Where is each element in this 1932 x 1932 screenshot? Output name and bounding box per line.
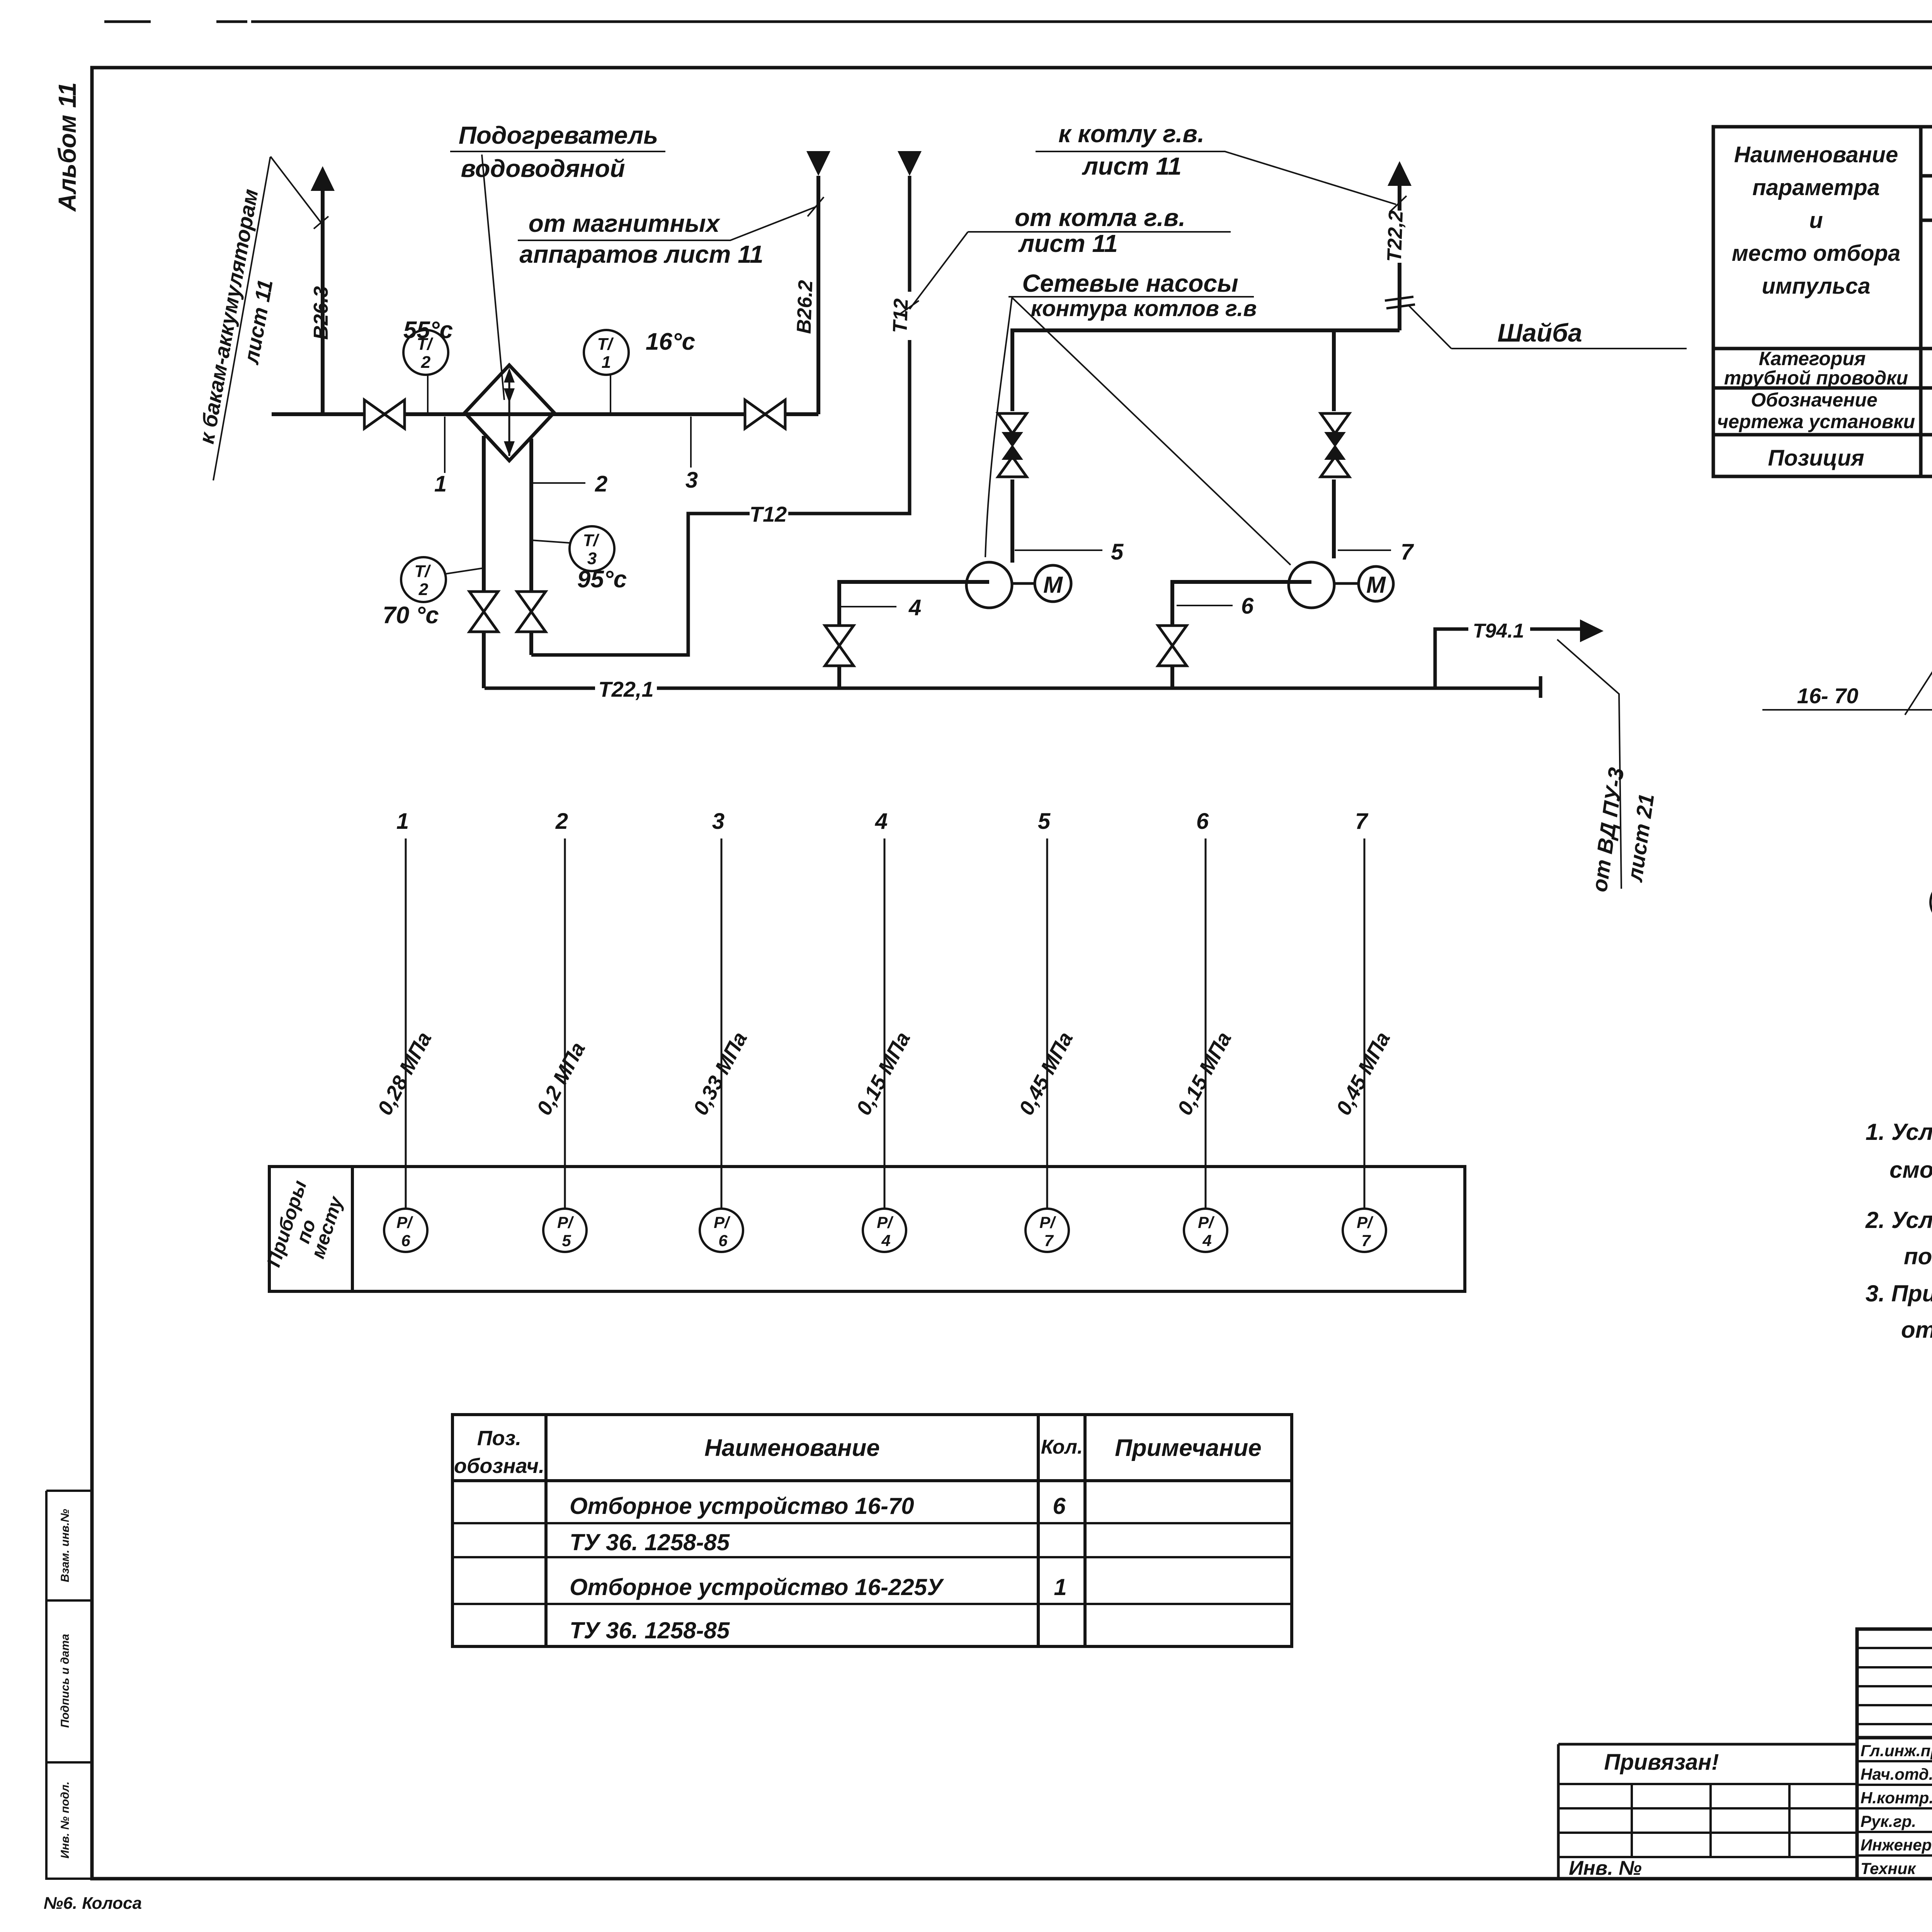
svg-text:1: 1 [396,809,409,834]
svg-text:Альбом 11: Альбом 11 [53,82,81,212]
svg-text:ТУ 36. 1258-85: ТУ 36. 1258-85 [570,1529,730,1555]
svg-text:чертежа установки: чертежа установки [1717,411,1915,432]
svg-text:Гл.инж.пр: Гл.инж.пр [1861,1742,1932,1760]
svg-text:2. Условные обозначения приб: 2. Условные обозначения приборов приняты [1865,1207,1932,1233]
svg-text:Т/: Т/ [583,531,600,550]
svg-text:контура котлов г.в: контура котлов г.в [1031,296,1257,321]
svg-text:ТУ 36. 1258-85: ТУ 36. 1258-85 [570,1617,730,1643]
svg-text:по ГОСТ 21.404-85.: по ГОСТ 21.404-85. [1904,1243,1932,1269]
svg-text:3. При привязке вычеркнуть: 3. При привязке вычеркнуть текст, не [1866,1281,1932,1306]
svg-text:Т/: Т/ [414,562,431,581]
svg-text:Обозначение: Обозначение [1751,389,1878,411]
svg-text:3: 3 [685,468,698,493]
svg-text:Сетевые насосы: Сетевые насосы [1022,269,1238,297]
svg-text:Т22,2: Т22,2 [1383,210,1408,262]
svg-text:Т94.1: Т94.1 [1473,620,1524,642]
svg-text:2: 2 [418,580,429,599]
svg-text:Подпись и дата: Подпись и дата [59,1634,71,1728]
svg-text:М: М [1366,572,1386,598]
svg-text:2: 2 [595,471,607,497]
svg-text:водоводяной: водоводяной [461,155,625,182]
svg-text:1: 1 [1054,1574,1066,1600]
svg-text:Наименование: Наименование [1734,142,1898,167]
svg-text:Шайба: Шайба [1497,318,1582,347]
svg-text:16- 70: 16- 70 [1797,684,1859,708]
svg-text:7: 7 [1044,1231,1054,1250]
svg-text:Т/: Т/ [597,335,614,354]
svg-text:Р/: Р/ [1357,1213,1374,1231]
svg-text:Р/: Р/ [1039,1213,1056,1231]
svg-text:4: 4 [881,1231,890,1250]
svg-text:М: М [1043,572,1063,598]
svg-text:95°с: 95°с [577,566,627,593]
svg-text:6: 6 [1053,1493,1066,1519]
svg-text:6: 6 [1241,594,1254,619]
svg-text:2: 2 [555,809,568,834]
svg-text:Примечание: Примечание [1115,1435,1262,1461]
svg-text:от магнитных: от магнитных [529,209,721,237]
svg-text:Т12: Т12 [889,298,912,334]
svg-text:1. Условные обозначения тр: 1. Условные обозначения трубопроводов [1866,1119,1932,1145]
svg-text:Р/: Р/ [877,1213,894,1231]
svg-text:4: 4 [1202,1231,1211,1250]
svg-text:Поз.: Поз. [477,1427,521,1450]
svg-text:трубной проводки: трубной проводки [1724,367,1908,389]
svg-text:7: 7 [1355,809,1369,834]
svg-text:место отбора: место отбора [1732,241,1901,266]
svg-text:относящийся к данному вариа: относящийся к данному варианту. [1901,1317,1932,1343]
svg-text:Р/: Р/ [714,1213,731,1231]
svg-text:Р/: Р/ [557,1213,574,1231]
svg-text:к котлу г.в.: к котлу г.в. [1058,120,1204,148]
svg-text:5: 5 [1111,539,1124,565]
svg-text:Категория: Категория [1759,348,1866,369]
svg-text:Позиция: Позиция [1768,446,1864,471]
svg-text:Взам. инв.№: Взам. инв.№ [59,1509,71,1582]
svg-text:В26.2: В26.2 [793,280,817,334]
svg-text:6: 6 [718,1231,728,1250]
svg-text:Рук.гр.: Рук.гр. [1861,1812,1916,1830]
svg-text:4: 4 [908,595,921,620]
svg-text:аппаратов лист 11: аппаратов лист 11 [519,240,763,268]
svg-text:Нач.отд.: Нач.отд. [1861,1765,1932,1783]
svg-text:смотри альбом 2 лист 4,5,6: смотри альбом 2 лист 4,5,6(альбом3 лист … [1889,1157,1932,1183]
svg-text:5: 5 [562,1231,571,1250]
svg-text:5: 5 [1038,809,1051,834]
svg-text:Р/: Р/ [1198,1213,1215,1231]
svg-text:4: 4 [875,809,888,834]
svg-text:6: 6 [401,1231,410,1250]
svg-text:В26.3: В26.3 [310,286,332,340]
svg-text:лист 11: лист 11 [1018,230,1118,257]
svg-text:Отборное устройство 16-70: Отборное устройство 16-70 [570,1493,914,1519]
svg-text:3: 3 [587,549,597,568]
svg-text:обознач.: обознач. [454,1454,544,1478]
svg-text:7: 7 [1361,1231,1371,1250]
svg-text:55°с: 55°с [403,317,453,344]
svg-text:Техник: Техник [1861,1859,1916,1878]
svg-text:Подогреватель: Подогреватель [459,121,658,149]
svg-text:3: 3 [712,809,724,834]
svg-text:Инв. №: Инв. № [1569,1857,1642,1879]
svg-text:Н.контр.: Н.контр. [1861,1789,1932,1807]
svg-text:1: 1 [434,471,447,497]
svg-text:№6. Колоса: №6. Колоса [44,1894,142,1913]
svg-text:Т12: Т12 [750,502,787,526]
svg-text:6: 6 [1196,809,1209,834]
svg-text:лист 11: лист 11 [1082,152,1182,180]
svg-text:Инженер: Инженер [1861,1836,1932,1854]
svg-text:1: 1 [602,353,611,372]
svg-text:от котла г.в.: от котла г.в. [1015,204,1185,231]
svg-text:70 °с: 70 °с [383,602,439,629]
svg-text:Инв. № подл.: Инв. № подл. [59,1781,71,1858]
svg-text:16°с: 16°с [646,328,695,355]
svg-text:импульса: импульса [1762,274,1870,299]
svg-text:Кол.: Кол. [1041,1436,1083,1458]
svg-text:7: 7 [1401,539,1414,565]
svg-text:и: и [1809,208,1823,233]
svg-text:2: 2 [421,353,431,372]
svg-text:Привязан!: Привязан! [1604,1750,1719,1775]
svg-text:Р/: Р/ [396,1213,413,1231]
svg-text:параметра: параметра [1752,175,1880,200]
svg-text:Отборное устройство 16-225У: Отборное устройство 16-225У [570,1574,944,1600]
svg-text:Наименование: Наименование [704,1435,880,1461]
svg-text:Т22,1: Т22,1 [598,677,653,701]
